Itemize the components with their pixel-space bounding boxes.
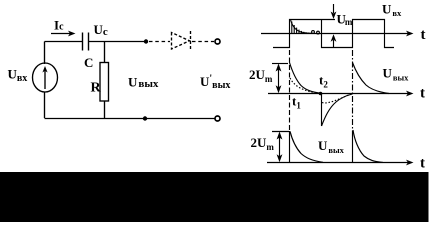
svg-text:2Um: 2Um — [251, 135, 275, 152]
node dot at t2 on axis — [319, 92, 323, 96]
axis t (input waveform) — [261, 31, 414, 37]
svg-text:t: t — [421, 27, 426, 43]
svg-text:U'вых: U'вых — [200, 74, 230, 92]
wire bottom horizontal — [45, 118, 216, 120]
dimension Um arrows — [331, 4, 337, 48]
svg-text:Uвых: Uвых — [128, 75, 159, 91]
wire capacitor to node — [89, 41, 146, 43]
output decay curve 1 (dotted) — [290, 78, 320, 93]
bottom decay curve 2 — [353, 130, 383, 162]
terminal bottom-right — [215, 116, 220, 121]
node top junction — [144, 39, 148, 43]
svg-text:Uc: Uc — [94, 22, 108, 38]
svg-text:Uвых: Uвых — [383, 66, 410, 83]
bottom decay curve 1 — [290, 131, 323, 162]
dashed wire diode to terminal — [192, 41, 214, 43]
svg-text:Uвх: Uвх — [8, 66, 28, 84]
2Um ref line (middle) — [272, 63, 288, 65]
svg-text:t: t — [420, 86, 425, 102]
wire left vertical (source top) — [44, 42, 46, 65]
dashed wire node to diode — [149, 41, 170, 43]
bottom pulse 2 edge — [352, 131, 354, 163]
2Um dimension arrow (bottom) — [277, 132, 283, 163]
bottom pulse 1 edge — [289, 131, 291, 162]
svg-text:t1: t1 — [292, 94, 301, 111]
terminal top-right — [215, 39, 220, 44]
wire top-left horizontal — [45, 41, 83, 43]
2Um ref line (bottom) — [272, 131, 289, 133]
marker line (x=352.5 dash-dot) — [352, 50, 354, 130]
svg-text:t2: t2 — [319, 73, 328, 90]
svg-text:t: t — [420, 156, 425, 172]
svg-text:R: R — [91, 81, 102, 96]
svg-text:Uвых: Uвых — [318, 138, 345, 155]
svg-text:Uвх: Uвх — [382, 1, 402, 18]
negative spike vertical — [321, 94, 323, 127]
wire left vertical (source bottom) — [44, 92, 46, 118]
resistor R body — [100, 63, 109, 102]
wire resistor top — [104, 42, 106, 63]
negative spike recovery curve (dotted) — [322, 94, 351, 103]
output decay curve 2 (solid) — [353, 63, 390, 94]
marker line t1 (x=289.5 dashed) — [289, 50, 291, 131]
output decay curve 1 (solid) — [290, 63, 323, 94]
black highlight bar — [0, 172, 429, 222]
hatched decay inside first pulse — [291, 20, 320, 35]
svg-text:2Um: 2Um — [249, 67, 273, 84]
negative spike recovery curve (solid) — [322, 94, 353, 126]
axis t (bottom waveform) — [267, 160, 414, 166]
node bottom junction — [143, 116, 147, 120]
capacitor C plates — [83, 33, 89, 51]
source U_vx (circle with up arrow) — [33, 63, 58, 92]
2Um dimension arrow (middle) — [276, 64, 282, 94]
axis t (U_vyx waveform) — [268, 91, 414, 97]
input square wave — [273, 20, 394, 48]
svg-text:C: C — [84, 55, 93, 70]
svg-text:Ic: Ic — [54, 18, 64, 33]
wire resistor bottom — [104, 101, 106, 118]
svg-text:Um: Um — [337, 12, 353, 28]
current arrow Ic — [51, 31, 76, 37]
diode VD (dashed outline) — [172, 31, 191, 51]
